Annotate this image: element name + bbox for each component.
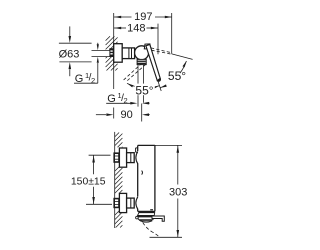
svg-text:55°: 55° xyxy=(135,84,153,98)
svg-text:Ø63: Ø63 xyxy=(59,48,80,60)
svg-text:90: 90 xyxy=(120,109,132,121)
svg-text:148: 148 xyxy=(127,23,145,35)
svg-text:150±15: 150±15 xyxy=(71,176,106,187)
svg-text:55°: 55° xyxy=(168,69,186,83)
svg-text:197: 197 xyxy=(134,11,152,23)
svg-text:303: 303 xyxy=(169,186,187,198)
